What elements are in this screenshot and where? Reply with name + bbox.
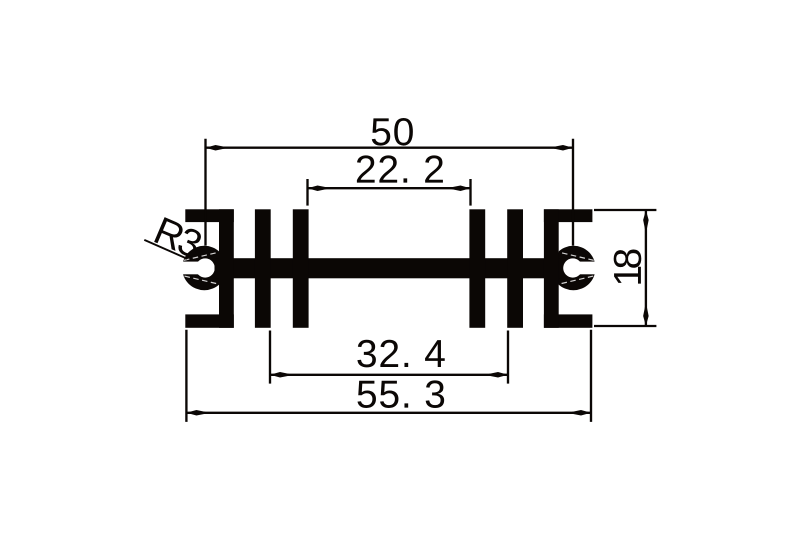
fin 3 (top+bottom) bbox=[469, 209, 485, 327]
dim text 55.3 bbox=[357, 380, 444, 408]
extension line dim18 top bbox=[594, 209, 656, 211]
dimension line 55.3 bbox=[186, 412, 591, 414]
extension line dim22.2 left bbox=[306, 179, 308, 206]
slot lip line upper left (white) bbox=[184, 252, 220, 260]
dim text 22.2 bbox=[357, 155, 443, 182]
extension line dim32.4 right bbox=[507, 331, 509, 384]
slot lip line upper right (white) bbox=[558, 252, 594, 260]
dim text 50 bbox=[372, 118, 413, 146]
radius label R3 (rotated) bbox=[154, 217, 201, 256]
dimension line 50 bbox=[206, 147, 574, 149]
fin 4 (top+bottom) bbox=[507, 209, 523, 327]
screw slot left (white channel) bbox=[178, 262, 205, 275]
extension line dim50 left bbox=[204, 139, 206, 246]
leader line R3 bbox=[144, 240, 187, 259]
arrowhead 22.2 left bbox=[308, 185, 327, 191]
arrowhead 55.3 left bbox=[186, 410, 205, 416]
slot lip line lower left (white) bbox=[185, 276, 220, 284]
arrowhead 32.4 right bbox=[489, 372, 508, 378]
screw boss disc right bbox=[551, 246, 595, 290]
channel vertical bar right bbox=[544, 209, 559, 327]
extension line dim55.3 right bbox=[590, 330, 592, 422]
extension line dim32.4 left bbox=[269, 331, 271, 384]
top flange left bbox=[185, 209, 234, 222]
web (central horizontal bar) bbox=[215, 258, 563, 278]
screw slot right (white channel) bbox=[573, 262, 600, 275]
top flange right bbox=[544, 209, 593, 222]
arrowhead 18 bottom bbox=[643, 307, 649, 326]
dimension line 18 bbox=[645, 210, 647, 326]
slot lip line lower right (white) bbox=[558, 276, 593, 284]
dim text 32.4 bbox=[357, 340, 444, 368]
fin 1 (top+bottom) bbox=[255, 209, 271, 327]
screw hole left (white) bbox=[196, 258, 215, 277]
arrowhead 18 top bbox=[643, 210, 649, 229]
screw hole right (white) bbox=[563, 258, 582, 277]
arrowhead 55.3 right bbox=[572, 410, 591, 416]
arrowhead 50 right bbox=[554, 145, 573, 151]
bottom flange left bbox=[185, 314, 234, 327]
arrowhead 22.2 right bbox=[452, 185, 471, 191]
extension line dim50 right bbox=[572, 139, 574, 246]
arrowhead 32.4 left bbox=[270, 372, 289, 378]
dimension line 32.4 bbox=[270, 374, 508, 376]
fin 2 (top+bottom) bbox=[293, 209, 309, 327]
channel vertical bar left bbox=[219, 209, 234, 327]
dimension line 22.2 bbox=[308, 187, 471, 189]
screw boss disc left bbox=[182, 246, 226, 290]
extension line dim55.3 left bbox=[185, 330, 187, 422]
bottom flange right bbox=[544, 314, 593, 327]
dim text 18 (rotated) bbox=[614, 250, 642, 284]
arrowhead 50 left bbox=[206, 145, 225, 151]
extension line dim18 bottom bbox=[594, 325, 656, 327]
extension line dim22.2 right bbox=[469, 179, 471, 206]
